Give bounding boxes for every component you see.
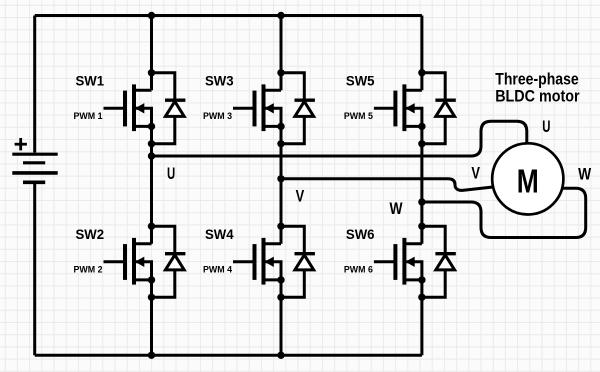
transistor SW3 (N-MOSFET) [233, 84, 281, 131]
svg-text:SW4: SW4 [205, 227, 234, 243]
junction: top bus / leg 2 [277, 12, 284, 19]
freewheeling diode of SW2 (D2) [152, 226, 186, 297]
wire: phase U from leg 1 midpoint to motor [152, 121, 527, 156]
svg-text:U: U [542, 118, 550, 136]
svg-text:V: V [296, 187, 305, 205]
svg-text:SW6: SW6 [346, 227, 375, 243]
junction: source node of SW1 / diode anode [148, 140, 155, 147]
junction: source/body node of SW1 [148, 123, 155, 130]
wire: leg 1 vertical segments [150, 16, 153, 356]
motor M1 (BLDC) [492, 143, 563, 214]
junction: drain node of SW5 [418, 69, 425, 76]
junction: source node of SW5 / diode anode [418, 140, 425, 147]
svg-text:PWM 3: PWM 3 [203, 111, 232, 121]
junction: source/body node of SW4 [277, 276, 284, 283]
junction: source node of SW6 / diode anode [418, 294, 425, 301]
junction: bottom bus / leg 1 [148, 352, 155, 359]
transistor SW1 (N-MOSFET) [104, 84, 152, 131]
svg-text:W: W [578, 166, 592, 184]
battery polarity mark + [15, 138, 27, 150]
wire: leg 2 vertical segments [280, 16, 283, 356]
freewheeling diode of SW3 (D3) [281, 73, 315, 144]
transistor SW6 (N-MOSFET) [374, 238, 422, 285]
junction: bottom bus / leg 2 [277, 352, 284, 359]
node V (leg 2 midpoint) [277, 175, 284, 182]
junction: top bus / leg 1 [148, 12, 155, 19]
svg-text:SW2: SW2 [76, 227, 105, 243]
junction: drain node of SW3 [277, 69, 284, 76]
wire: top DC bus (V+) [35, 14, 422, 17]
junction: source node of SW3 / diode anode [277, 140, 284, 147]
svg-text:SW5: SW5 [346, 74, 375, 90]
junction: source/body node of SW5 [418, 123, 425, 130]
freewheeling diode of SW6 (D6) [422, 226, 456, 297]
junction: source/body node of SW2 [148, 276, 155, 283]
svg-text:U: U [167, 165, 175, 183]
battery V1 (DC supply) [12, 154, 57, 182]
svg-text:V: V [471, 165, 480, 183]
svg-text:W: W [390, 200, 404, 218]
svg-text:PWM 5: PWM 5 [344, 111, 373, 121]
junction: source node of SW2 / diode anode [148, 294, 155, 301]
junction: drain node of SW6 [418, 223, 425, 230]
freewheeling diode of SW1 (D1) [152, 73, 186, 144]
wire: phase V from leg 2 midpoint to motor [281, 179, 494, 191]
node W (leg 3 midpoint) [418, 198, 425, 205]
junction: source/body node of SW3 [277, 123, 284, 130]
wire: phase W from leg 3 midpoint to motor [422, 188, 586, 237]
wire: battery positive lead [33, 16, 36, 153]
svg-text:M: M [517, 163, 539, 200]
junction: drain node of SW2 [148, 223, 155, 230]
node U (leg 1 midpoint) [148, 152, 155, 159]
junction: drain node of SW1 [148, 69, 155, 76]
junction: source node of SW4 / diode anode [277, 294, 284, 301]
svg-text:BLDC motor: BLDC motor [495, 87, 580, 105]
transistor SW5 (N-MOSFET) [374, 84, 422, 131]
transistor SW2 (N-MOSFET) [104, 238, 152, 285]
freewheeling diode of SW4 (D4) [281, 226, 315, 297]
wire: battery negative lead [33, 184, 36, 356]
freewheeling diode of SW5 (D5) [422, 73, 456, 144]
svg-text:PWM 1: PWM 1 [74, 111, 103, 121]
svg-text:Three-phase: Three-phase [495, 71, 578, 89]
svg-text:SW1: SW1 [76, 74, 105, 90]
junction: drain node of SW4 [277, 223, 284, 230]
wire: leg 3 vertical segments [420, 16, 423, 356]
svg-text:PWM 2: PWM 2 [74, 264, 103, 274]
svg-text:PWM 6: PWM 6 [344, 264, 373, 274]
svg-text:PWM 4: PWM 4 [203, 264, 232, 274]
svg-text:SW3: SW3 [205, 74, 234, 90]
wire: bottom DC bus (V-) [35, 354, 422, 357]
junction: source/body node of SW6 [418, 276, 425, 283]
transistor SW4 (N-MOSFET) [233, 238, 281, 285]
